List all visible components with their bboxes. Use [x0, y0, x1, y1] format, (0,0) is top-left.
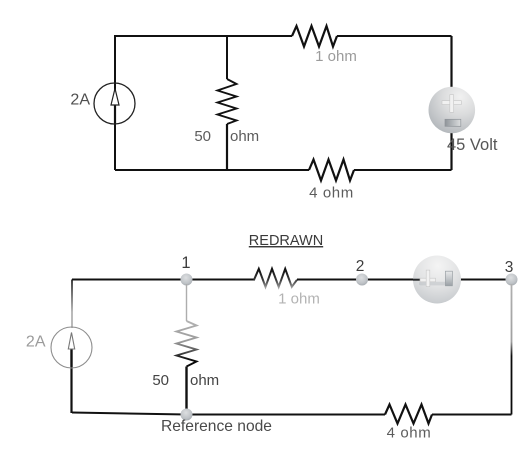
wire: top rail (bottom circuit) — [72, 279, 255, 281]
label: ohm (bottom circuit) — [190, 372, 219, 389]
svg-text:45 Volt: 45 Volt — [447, 136, 498, 154]
resistor R4 4 ohm (top circuit) — [309, 160, 354, 181]
svg-text:2: 2 — [356, 258, 365, 275]
label: 4 ohm (top circuit) — [309, 184, 354, 201]
reference node (bottom circuit) — [181, 409, 193, 421]
label: 1 ohm (top circuit) — [315, 48, 357, 65]
resistor R50 50 ohm (top circuit) — [218, 79, 237, 124]
wire: top rail left segment (top circuit) — [115, 36, 292, 170]
label: 50 (top circuit) — [194, 128, 211, 145]
wire: left rail lower part (bottom circuit) — [70, 367, 72, 413]
label: node 2 — [356, 258, 365, 275]
wire: bottom rail left segment (bottom circuit) — [72, 413, 385, 415]
label: 4 ohm (bottom circuit) — [387, 424, 432, 441]
svg-text:ohm: ohm — [230, 128, 259, 145]
resistor 1 ohm (bottom circuit) — [254, 269, 297, 287]
node 1 (bottom circuit) — [181, 274, 193, 286]
label: node 1 — [181, 254, 190, 272]
label: 2A (bottom circuit) — [26, 334, 46, 351]
svg-text:1 ohm: 1 ohm — [278, 291, 320, 308]
svg-text:50: 50 — [152, 372, 169, 389]
label: node 3 — [505, 259, 514, 276]
label: 2A (top circuit) — [70, 92, 90, 109]
wire: bottom rail (top circuit) — [115, 169, 309, 171]
label: 1 ohm (bottom circuit) — [278, 291, 320, 308]
svg-text:3: 3 — [505, 259, 514, 276]
current source 2A (bottom circuit, faded) — [51, 327, 92, 368]
label: Reference node — [161, 418, 272, 435]
current source 2A (top circuit) — [94, 83, 135, 124]
wire: 50-ohm branch lower lead (bottom circuit) — [185, 367, 187, 412]
svg-text:4 ohm: 4 ohm — [309, 184, 354, 201]
node 3 (bottom circuit) — [506, 274, 518, 286]
battery 45 Volt (bottom circuit, rotated coin-cell icon) — [413, 256, 461, 304]
wire: top rail right segment (top circuit) — [337, 35, 452, 37]
label: 50 (bottom circuit) — [152, 372, 169, 389]
wire: bottom rail right segment (top circuit) — [354, 169, 452, 171]
wire: 50-ohm branch upper lead (bottom circuit, gray) — [186, 284, 188, 321]
wire: bottom rail right segment (bottom circuit) — [432, 414, 512, 416]
resistor R1 1 ohm (top circuit) — [292, 26, 337, 47]
svg-text:REDRAWN: REDRAWN — [249, 233, 323, 249]
svg-text:50: 50 — [194, 128, 211, 145]
label: REDRAWN heading — [249, 233, 323, 249]
wire: middle branch lower lead (top circuit) — [226, 124, 228, 170]
svg-text:ohm: ohm — [190, 372, 219, 389]
wire: right rail through battery (top circuit) — [450, 36, 452, 170]
svg-text:4 ohm: 4 ohm — [387, 424, 432, 441]
node 2 (bottom circuit) — [356, 274, 368, 286]
wire: right rail (bottom circuit, fading gray to black) — [511, 284, 513, 415]
resistor 4 ohm (bottom circuit) — [385, 405, 432, 424]
svg-text:2A: 2A — [70, 92, 90, 109]
svg-text:2A: 2A — [26, 334, 46, 351]
svg-text:1: 1 — [181, 254, 190, 272]
label: ohm (top circuit) — [230, 128, 259, 145]
wire: left rail upper part (bottom circuit, black fading to gray) — [71, 280, 73, 329]
label: 45 Volt (top circuit) — [447, 136, 498, 154]
wire: top rail between resistor and node 3 (bottom circuit) — [297, 279, 512, 281]
svg-text:Reference node: Reference node — [161, 418, 272, 435]
svg-text:1 ohm: 1 ohm — [315, 48, 357, 65]
battery 45 Volt (top circuit, coin-cell icon) — [429, 87, 476, 134]
wire: middle branch upper lead (top circuit) — [226, 36, 228, 79]
resistor 50 ohm (bottom circuit, fading gray to black) — [177, 321, 197, 367]
